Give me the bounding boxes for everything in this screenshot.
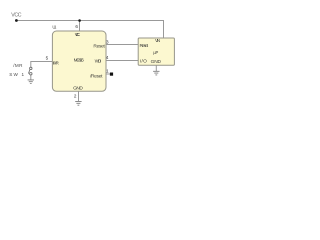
- svg-text:VCC: VCC: [11, 12, 21, 18]
- svg-text:1: 1: [106, 69, 109, 74]
- svg-text:3: 3: [106, 40, 109, 45]
- svg-text:VCC: VCC: [75, 32, 81, 38]
- svg-text:I/O: I/O: [140, 58, 147, 64]
- svg-text:/MR: /MR: [13, 63, 23, 68]
- svg-text:GND: GND: [151, 59, 162, 65]
- svg-text:µP: µP: [153, 50, 158, 55]
- svg-text:/Reset: /Reset: [90, 74, 103, 80]
- svg-text:5: 5: [46, 56, 49, 61]
- svg-text:GND: GND: [73, 86, 83, 92]
- svg-text:WDI: WDI: [95, 58, 102, 64]
- svg-text:U1: U1: [52, 25, 57, 30]
- svg-text:SW 1: SW 1: [9, 72, 24, 77]
- svg-text:Reset: Reset: [93, 43, 105, 49]
- svg-text:6: 6: [75, 24, 78, 29]
- svg-text:2: 2: [74, 94, 77, 99]
- svg-text:/MR: /MR: [53, 60, 59, 66]
- svg-text:4: 4: [106, 55, 109, 60]
- svg-text:MIC826: MIC826: [74, 58, 85, 64]
- svg-text:VIN: VIN: [155, 38, 161, 44]
- svg-text:Reset: Reset: [140, 43, 149, 49]
